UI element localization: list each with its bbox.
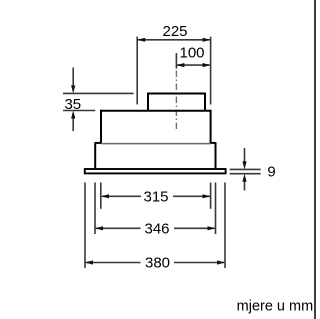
- dimension 9: [230, 148, 276, 191]
- dimension 315: [101, 183, 211, 209]
- units note mjere u mm: [237, 299, 314, 315]
- duct collar: [148, 94, 205, 111]
- mounting flange: [85, 169, 226, 173]
- right page border line: [314, 0, 316, 319]
- dimension 346: [95, 183, 216, 238]
- svg-text:35: 35: [64, 96, 81, 113]
- dimension 380: [85, 183, 225, 272]
- svg-text:225: 225: [162, 23, 187, 40]
- hood body outline: [95, 110, 215, 169]
- svg-text:9: 9: [267, 163, 275, 180]
- dimension 100: [176, 44, 210, 67]
- dimension 35: [63, 68, 134, 132]
- centerline of duct: [175, 53, 177, 130]
- svg-text:mjere u mm: mjere u mm: [237, 299, 314, 315]
- svg-text:100: 100: [179, 44, 204, 61]
- svg-text:380: 380: [145, 255, 170, 272]
- svg-text:346: 346: [144, 220, 169, 237]
- dimension 225: [137, 23, 210, 105]
- svg-text:315: 315: [143, 188, 168, 205]
